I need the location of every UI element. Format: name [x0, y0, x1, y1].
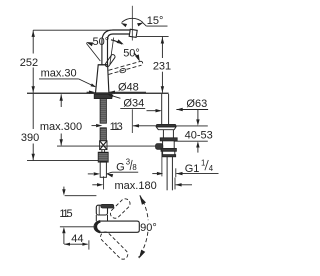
svg-text:15°: 15°	[147, 15, 164, 27]
svg-text:Ø48: Ø48	[118, 81, 139, 93]
svg-text:3: 3	[126, 158, 130, 167]
svg-text:4: 4	[209, 164, 214, 173]
svg-text:90°: 90°	[140, 222, 157, 234]
svg-text:40-53: 40-53	[185, 130, 213, 142]
svg-text:50°: 50°	[123, 47, 140, 59]
svg-text:252: 252	[20, 57, 38, 69]
svg-text:max.300: max.300	[40, 121, 82, 133]
svg-text:Ø34: Ø34	[123, 97, 144, 109]
svg-text:Ø63: Ø63	[186, 98, 207, 110]
svg-text:390: 390	[21, 132, 39, 144]
svg-text:max.30: max.30	[41, 67, 77, 79]
svg-text:50°: 50°	[93, 36, 110, 48]
svg-text:G: G	[116, 161, 125, 173]
svg-text:44: 44	[71, 233, 83, 245]
svg-text:max.180: max.180	[115, 180, 157, 192]
svg-text:1: 1	[201, 158, 205, 167]
svg-text:231: 231	[153, 61, 171, 73]
svg-text:G1: G1	[185, 163, 200, 175]
svg-text:8: 8	[132, 163, 136, 172]
